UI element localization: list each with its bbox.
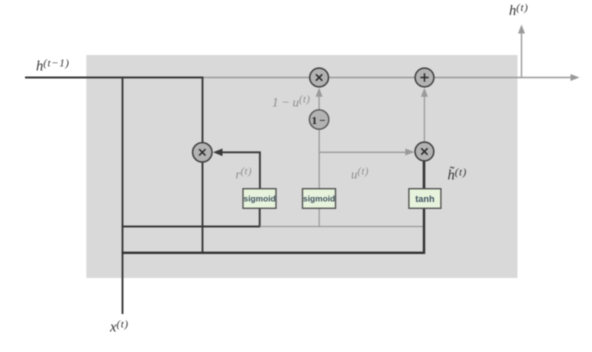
op circle: multiply r x h — [193, 143, 212, 162]
wire: h(t-1) input dark horizontal — [25, 77, 203, 79]
arrowhead into right multiply circle — [405, 149, 414, 156]
op circle: plus — [415, 68, 434, 87]
svg-text:h(t−1): h(t−1) — [36, 57, 70, 74]
svg-text:sigmoid: sigmoid — [303, 194, 335, 204]
wire: main output line h(t) horizontal gray — [203, 77, 576, 79]
wire: r-gate branch vertical dark (h down to bottom bus) — [202, 77, 204, 254]
wire: bottom bus A gray continuation to sigmoid u and tanh — [260, 226, 424, 228]
wire: bottom bus A dark (x/h to sigmoid r input) — [122, 208, 260, 227]
svg-text:sigmoid: sigmoid — [244, 194, 276, 204]
gate box: sigmoid (u gate) — [303, 189, 336, 209]
wire: sigmoid u output vertical gray up to 1- circle — [318, 120, 320, 190]
wire: 1- circle up to multiply circle gray — [318, 91, 320, 120]
arrowhead into top multiply circle — [316, 88, 323, 97]
op circle: multiply (1-u) x h — [310, 68, 329, 87]
arrowhead into r multiply circle — [213, 149, 223, 157]
wire: tanh output thick dark up to multiply — [423, 152, 426, 189]
op circle: 1 minus — [309, 110, 328, 129]
gate box: sigmoid (r gate) — [243, 189, 276, 209]
arrowhead top of h(t) axis — [518, 25, 525, 34]
gate box: tanh — [409, 189, 441, 209]
cell body background — [86, 55, 517, 278]
wire: u branch horizontal gray to right multiply — [319, 151, 413, 153]
wire: h(t) vertical axis arrow — [521, 29, 523, 78]
svg-text:x(t): x(t) — [109, 318, 129, 335]
op circle: multiply u x htilde — [415, 142, 434, 161]
wire: sigmoid r output up and left to multiply, dark — [216, 152, 260, 189]
svg-text:tanh: tanh — [415, 194, 435, 204]
wire: right multiply up to plus gray — [423, 91, 425, 152]
arrowhead right end of output line — [571, 74, 580, 81]
svg-text:h(t): h(t) — [509, 2, 528, 19]
wire: x(t) vertical dark — [122, 77, 124, 314]
wire: sigmoid u bottom stem gray — [318, 208, 320, 227]
svg-text:1 −: 1 − — [312, 115, 326, 127]
wire: bottom bus B dark thick (x and r*h to tanh) — [122, 207, 424, 253]
arrowhead into plus circle from below — [421, 88, 428, 97]
